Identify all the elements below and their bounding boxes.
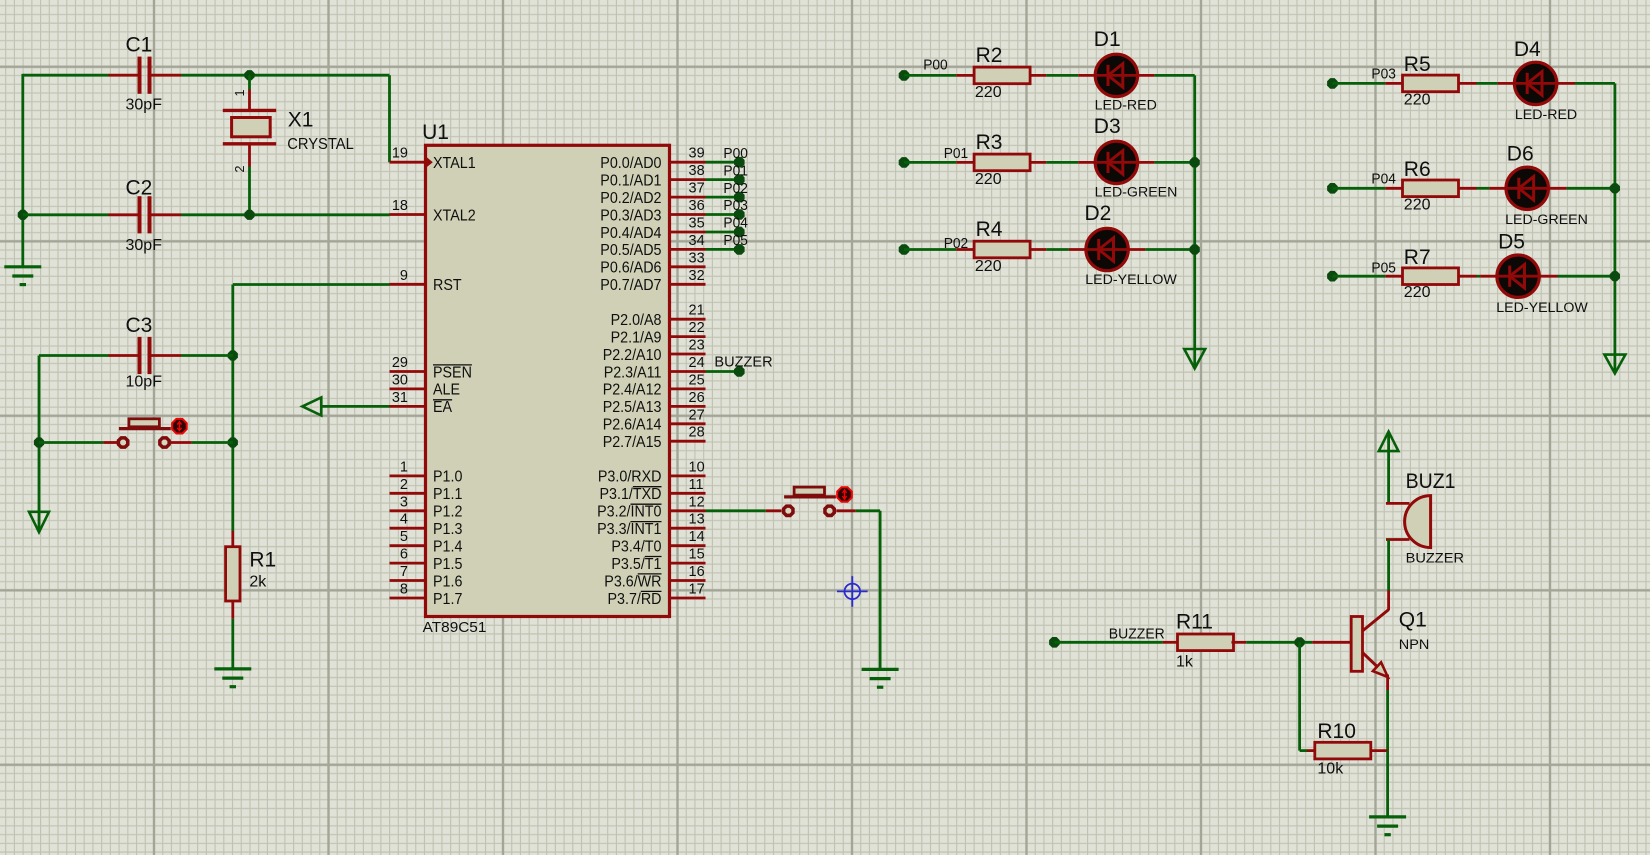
svg-text:P05: P05 [1371, 260, 1396, 276]
svg-text:X1: X1 [288, 108, 314, 131]
svg-text:P3.1/TXD: P3.1/TXD [600, 486, 662, 503]
svg-text:38: 38 [689, 163, 705, 179]
svg-text:P0.2/AD2: P0.2/AD2 [600, 190, 661, 207]
svg-text:LED-RED: LED-RED [1095, 98, 1157, 114]
svg-text:Q1: Q1 [1399, 608, 1427, 631]
svg-text:P3.5/T1: P3.5/T1 [611, 556, 661, 573]
svg-text:31: 31 [392, 390, 408, 406]
svg-text:P04: P04 [723, 216, 748, 232]
svg-text:29: 29 [392, 355, 408, 371]
svg-text:1k: 1k [1176, 654, 1194, 671]
svg-text:39: 39 [689, 146, 705, 162]
svg-text:30pF: 30pF [126, 237, 163, 254]
svg-text:C2: C2 [126, 177, 153, 200]
svg-text:BUZ1: BUZ1 [1406, 470, 1456, 493]
svg-text:30pF: 30pF [126, 97, 163, 114]
svg-text:C3: C3 [126, 314, 153, 337]
svg-text:P03: P03 [723, 198, 748, 214]
svg-text:220: 220 [1404, 91, 1431, 108]
svg-text:P3.4/T0: P3.4/T0 [611, 539, 661, 556]
svg-text:P00: P00 [723, 146, 748, 162]
svg-text:R10: R10 [1317, 720, 1356, 743]
svg-text:LED-YELLOW: LED-YELLOW [1085, 272, 1177, 288]
svg-text:P0.5/AD5: P0.5/AD5 [600, 242, 661, 259]
svg-text:220: 220 [975, 171, 1002, 188]
svg-text:36: 36 [689, 198, 705, 214]
svg-text:P00: P00 [923, 58, 948, 74]
svg-text:BUZZER: BUZZER [1406, 550, 1464, 566]
svg-text:R11: R11 [1176, 611, 1213, 634]
svg-text:6: 6 [400, 547, 408, 563]
svg-text:P02: P02 [944, 236, 969, 252]
svg-text:P2.3/A11: P2.3/A11 [604, 364, 662, 381]
svg-text:P0.0/AD0: P0.0/AD0 [600, 155, 662, 172]
svg-text:37: 37 [689, 181, 705, 197]
svg-text:BUZZER: BUZZER [1109, 626, 1165, 643]
svg-text:35: 35 [689, 216, 705, 232]
svg-text:2: 2 [233, 166, 247, 173]
svg-text:P01: P01 [723, 163, 748, 179]
svg-text:25: 25 [689, 372, 705, 388]
svg-text:D2: D2 [1085, 202, 1112, 225]
svg-text:1: 1 [400, 459, 408, 475]
svg-text:7: 7 [400, 564, 408, 580]
svg-text:XTAL2: XTAL2 [433, 207, 476, 224]
svg-text:U1: U1 [422, 121, 449, 144]
svg-text:P2.2/A10: P2.2/A10 [603, 347, 662, 364]
svg-text:LED-RED: LED-RED [1515, 107, 1577, 123]
svg-text:220: 220 [1404, 196, 1431, 213]
svg-text:P1.0: P1.0 [433, 469, 463, 486]
svg-text:NPN: NPN [1399, 637, 1430, 653]
svg-text:2k: 2k [249, 574, 267, 591]
svg-text:R2: R2 [976, 44, 1003, 67]
svg-text:P3.7/RD: P3.7/RD [608, 591, 662, 608]
svg-text:LED-YELLOW: LED-YELLOW [1496, 300, 1588, 316]
svg-text:21: 21 [689, 303, 705, 319]
svg-text:19: 19 [392, 146, 408, 162]
svg-text:5: 5 [400, 529, 408, 545]
svg-text:R4: R4 [976, 218, 1003, 241]
svg-text:D3: D3 [1094, 115, 1121, 138]
svg-text:D1: D1 [1094, 28, 1121, 51]
svg-text:12: 12 [689, 494, 705, 510]
svg-text:10pF: 10pF [126, 374, 163, 391]
svg-text:18: 18 [392, 198, 408, 214]
svg-text:P0.4/AD4: P0.4/AD4 [600, 225, 662, 242]
svg-text:CRYSTAL: CRYSTAL [287, 136, 354, 153]
svg-text:220: 220 [975, 258, 1002, 275]
svg-text:P0.6/AD6: P0.6/AD6 [600, 260, 661, 277]
svg-text:P3.2/INT0: P3.2/INT0 [597, 504, 662, 521]
svg-text:3: 3 [400, 494, 408, 510]
svg-text:P0.7/AD7: P0.7/AD7 [600, 277, 661, 294]
svg-text:2: 2 [400, 477, 408, 493]
svg-text:AT89C51: AT89C51 [423, 619, 487, 636]
svg-text:P1.3: P1.3 [433, 521, 462, 538]
svg-text:P2.0/A8: P2.0/A8 [611, 312, 662, 329]
svg-text:22: 22 [689, 320, 705, 336]
svg-text:LED-GREEN: LED-GREEN [1505, 212, 1588, 228]
svg-text:14: 14 [689, 529, 705, 545]
svg-text:27: 27 [689, 407, 705, 423]
svg-text:R6: R6 [1404, 158, 1431, 181]
svg-text:EA: EA [433, 399, 453, 416]
svg-text:D5: D5 [1498, 231, 1525, 254]
svg-text:P0.1/AD1: P0.1/AD1 [600, 172, 661, 189]
svg-text:P03: P03 [1371, 66, 1396, 82]
svg-text:16: 16 [689, 564, 705, 580]
svg-text:11: 11 [689, 477, 704, 493]
svg-text:P1.7: P1.7 [433, 591, 462, 608]
svg-text:34: 34 [689, 233, 705, 249]
svg-text:4: 4 [400, 512, 408, 528]
svg-text:28: 28 [689, 425, 705, 441]
svg-text:24: 24 [689, 355, 705, 371]
svg-text:P3.6/WR: P3.6/WR [604, 573, 661, 590]
svg-text:30: 30 [392, 372, 408, 388]
svg-text:R5: R5 [1404, 53, 1431, 76]
svg-text:P3.0/RXD: P3.0/RXD [598, 469, 662, 486]
svg-text:32: 32 [689, 268, 705, 284]
svg-text:P2.5/A13: P2.5/A13 [603, 399, 662, 416]
svg-text:P2.7/A15: P2.7/A15 [603, 434, 662, 451]
svg-text:15: 15 [689, 547, 705, 563]
svg-text:10: 10 [689, 459, 705, 475]
svg-text:PSEN: PSEN [433, 364, 472, 381]
svg-text:ALE: ALE [433, 382, 460, 399]
svg-text:R1: R1 [249, 549, 276, 572]
svg-text:P1.4: P1.4 [433, 539, 463, 556]
svg-text:P01: P01 [944, 146, 969, 162]
svg-text:P02: P02 [723, 181, 748, 197]
svg-text:10k: 10k [1317, 761, 1344, 778]
svg-text:26: 26 [689, 390, 705, 406]
svg-text:P2.1/A9: P2.1/A9 [611, 329, 662, 346]
svg-text:RST: RST [433, 277, 462, 294]
svg-text:9: 9 [400, 268, 408, 284]
svg-text:P0.3/AD3: P0.3/AD3 [600, 207, 661, 224]
svg-text:1: 1 [233, 90, 247, 97]
svg-text:33: 33 [689, 250, 705, 266]
svg-text:17: 17 [689, 582, 705, 598]
svg-text:P2.4/A12: P2.4/A12 [603, 382, 662, 399]
svg-text:C1: C1 [126, 34, 153, 57]
svg-text:R7: R7 [1404, 246, 1431, 269]
svg-text:13: 13 [689, 512, 705, 528]
svg-text:P2.6/A14: P2.6/A14 [603, 417, 662, 434]
svg-text:XTAL1: XTAL1 [433, 155, 476, 172]
svg-text:LED-GREEN: LED-GREEN [1095, 185, 1178, 201]
svg-text:220: 220 [1404, 284, 1431, 301]
svg-text:P1.5: P1.5 [433, 556, 462, 573]
svg-text:P3.3/INT1: P3.3/INT1 [597, 521, 661, 538]
svg-text:220: 220 [975, 84, 1002, 101]
svg-text:P1.2: P1.2 [433, 504, 462, 521]
svg-text:D4: D4 [1514, 38, 1541, 61]
svg-text:P05: P05 [723, 233, 748, 249]
svg-text:BUZZER: BUZZER [714, 354, 772, 371]
svg-text:P1.6: P1.6 [433, 573, 462, 590]
svg-text:D6: D6 [1507, 143, 1534, 166]
svg-text:23: 23 [689, 338, 705, 354]
svg-text:P04: P04 [1371, 172, 1396, 188]
svg-text:P1.1: P1.1 [433, 486, 462, 503]
svg-text:8: 8 [400, 582, 408, 598]
svg-text:R3: R3 [976, 131, 1003, 154]
